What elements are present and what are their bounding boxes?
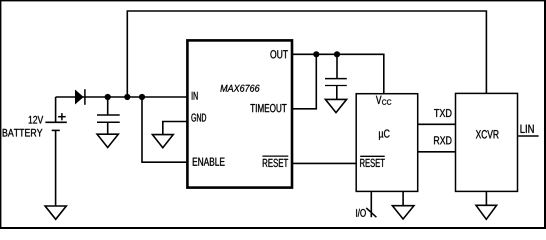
slash mark on I/O wire (366, 208, 376, 217)
ground (GND pin) (152, 135, 173, 148)
wire: top rail from input node up and across to XCVR (127, 11, 486, 97)
overline for RESET (MAX6766) (262, 155, 288, 157)
battery 12V (45, 97, 66, 206)
microcontroller uC box (356, 94, 418, 192)
ground (XCVR) (476, 205, 497, 219)
wire: TXD link (418, 123, 456, 125)
label BATTERY (3, 129, 43, 137)
label 12V (29, 116, 44, 124)
label TIMEOUT (250, 104, 286, 112)
wire: RXD link (418, 151, 456, 153)
label MAX6766 (220, 85, 259, 92)
overline for RESET (uC) (360, 155, 385, 157)
label ENABLE (193, 158, 225, 166)
label RXD (434, 136, 451, 144)
ground (C2) (325, 99, 346, 112)
node dot (C2 tap) (334, 51, 340, 57)
label RESET1 (263, 159, 288, 167)
label I/O (356, 209, 366, 217)
ground (uC) (392, 206, 414, 219)
label IN (192, 92, 198, 100)
wire: OUT to TIMEOUT loopback (292, 54, 316, 109)
wire: RESET link MAX6766 to uC (293, 162, 356, 164)
transceiver XCVR box (456, 93, 518, 191)
label GND (191, 113, 206, 121)
wire: LIN output (518, 135, 539, 137)
wire: OUT to uC VCC (292, 54, 384, 94)
ground (C1) (97, 134, 118, 147)
capacitor C1 (97, 97, 120, 134)
node dot (ENABLE tap) (139, 94, 145, 100)
label RESET2 (360, 159, 385, 167)
label CC (382, 99, 391, 104)
wire: I/O pin (370, 192, 372, 218)
capacitor C2 (325, 54, 347, 99)
label XCVR (476, 130, 499, 139)
ground (battery) (45, 206, 66, 219)
label LIN (521, 125, 534, 133)
op IC U1 MAX6766 box (187, 40, 292, 187)
label OUT (270, 50, 288, 58)
node dot (C1 tap) (105, 94, 111, 100)
node dot (top-rail tap) (124, 94, 130, 100)
wire: uC ground (402, 192, 404, 206)
wire: ENABLE from rail (142, 97, 187, 162)
node dot (TIMEOUT tap) (313, 51, 319, 57)
label uC (379, 129, 390, 139)
diode D1 (75, 89, 85, 105)
wire: main 12V rail to IN pin (56, 96, 187, 98)
label V (376, 96, 382, 104)
wire: XCVR ground (485, 192, 487, 206)
label TXD (434, 109, 451, 117)
wire: GND pin to ground (163, 122, 187, 135)
